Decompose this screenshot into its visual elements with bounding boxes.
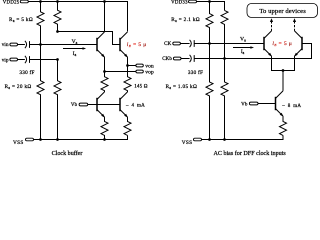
wire tail down	[282, 71, 284, 91]
port Vb (right)	[241, 102, 258, 107]
port Vb	[71, 103, 88, 108]
resistor R12 1.05k	[221, 59, 228, 140]
svg-text:145 Ω: 145 Ω	[134, 84, 148, 89]
power terminal VDD33	[171, 0, 196, 5]
power terminal VSS (right)	[182, 138, 202, 146]
wire VDD25 rail	[28, 2, 127, 32]
svg-text:AC bias for DFF clock inputs: AC bias for DFF clock inputs	[213, 150, 286, 157]
resistor R6 145 Ohm	[124, 66, 131, 93]
node rail-R9	[208, 0, 211, 3]
wire Q2 base route	[58, 32, 121, 45]
node rail-R3	[39, 138, 42, 141]
transistor Q4 current source	[120, 92, 128, 118]
svg-text:VDD25: VDD25	[3, 1, 20, 6]
wire CK to C3	[180, 43, 189, 45]
wire emitters join	[272, 56, 295, 70]
box To upper devices	[247, 4, 318, 18]
svg-text:330 fF: 330 fF	[19, 69, 34, 76]
wire vop	[105, 71, 136, 73]
resistor R8 Q4 emitter	[124, 117, 131, 135]
capacitor C1 330fF	[25, 41, 30, 48]
wire C3 to diff pair	[194, 43, 264, 45]
resistor R7 Q3 emitter	[101, 117, 108, 139]
wire VSS rail (right)	[202, 135, 284, 139]
svg-text:CKb: CKb	[162, 57, 172, 62]
resistor R13 tail emitter	[280, 116, 287, 135]
node Q2 emitter / von	[126, 64, 129, 67]
transistor Q1 emitter follower	[97, 32, 105, 58]
node rail-R1	[39, 0, 42, 3]
svg-text:– 8 mA: – 8 mA	[281, 104, 301, 109]
svg-text:CK: CK	[164, 42, 171, 47]
wire CKb line	[194, 44, 311, 59]
node common emitter	[282, 69, 285, 72]
svg-text:VSS: VSS	[13, 140, 24, 146]
power terminal VDD25	[3, 0, 29, 5]
resistor R5 chain1	[101, 72, 108, 93]
svg-text:Vb: Vb	[71, 103, 78, 108]
resistor R9 2.1k	[206, 2, 213, 44]
wire Q2 emitter down	[127, 57, 129, 65]
capacitor C2 330fF	[25, 56, 30, 63]
wire Q1 emitter down	[104, 57, 106, 71]
node rail-R11	[208, 138, 211, 141]
node vip bias	[56, 58, 59, 61]
svg-text:Vb: Vb	[241, 102, 248, 107]
wire CKb to C4	[181, 58, 190, 60]
wire Vb to base	[258, 103, 276, 105]
node vin bias	[39, 43, 42, 46]
port von	[136, 64, 154, 70]
wire von	[128, 65, 136, 67]
svg-text:VSS: VSS	[182, 140, 193, 146]
current arrow Ia (right)	[233, 46, 254, 49]
svg-text:Clock buffer: Clock buffer	[52, 150, 83, 157]
port vin	[2, 43, 18, 48]
svg-text:– 4 mA: – 4 mA	[125, 103, 145, 108]
svg-text:VDD33: VDD33	[171, 1, 188, 6]
node rail-R2	[56, 0, 59, 3]
svg-text:vip: vip	[2, 58, 9, 63]
wire vip to C2	[18, 59, 25, 61]
node R2 bottom tee	[56, 30, 59, 33]
transistor Q7 diff pair right (mirrored)	[294, 31, 302, 57]
svg-text:vin: vin	[2, 43, 9, 48]
wire C1 to Q1 base	[30, 44, 98, 46]
node rail-R12	[223, 138, 226, 141]
svg-text:vop: vop	[145, 69, 154, 75]
resistor R2 5k	[54, 2, 61, 32]
resistor R11 1.05k	[206, 44, 213, 140]
transistor Q3 current source	[97, 92, 105, 118]
resistor R4 20k	[54, 60, 61, 140]
wire Vb to bases	[88, 104, 120, 106]
node Q1 emitter / vop	[103, 70, 106, 73]
node rail-R7	[103, 138, 106, 141]
transistor Q2 emitter follower	[120, 32, 128, 58]
current arrow Ia	[63, 47, 86, 50]
port vip	[2, 58, 18, 63]
node rail-R4	[56, 138, 59, 141]
node rail-Q1 collector	[103, 0, 106, 3]
svg-text:330 fF: 330 fF	[188, 69, 203, 76]
capacitor C3 330fF	[190, 40, 195, 47]
transistor Q8 tail current source	[276, 91, 284, 117]
wire C2 to node	[30, 59, 58, 61]
transistor Q6 diff pair left	[264, 31, 272, 57]
dashed collector arrow left	[270, 18, 273, 31]
resistor R1 5k	[37, 2, 44, 45]
dashed collector arrow right	[293, 18, 296, 31]
svg-text:Ra = 5 kΩ: Ra = 5 kΩ	[9, 17, 33, 23]
svg-text:To upper devices: To upper devices	[259, 8, 306, 15]
port CKb	[162, 57, 181, 62]
svg-text:von: von	[145, 64, 154, 70]
wire VSS rail	[34, 135, 128, 139]
resistor R3 20k	[37, 45, 44, 140]
resistor R10 2.1k	[221, 10, 228, 58]
power terminal VSS	[13, 138, 34, 146]
capacitor C4 330fF	[190, 55, 195, 62]
wire vin to C1	[18, 44, 25, 46]
wire Q1 collector to rail	[104, 2, 106, 32]
node CK bias	[208, 42, 211, 45]
port CK	[164, 42, 180, 47]
port vop	[136, 69, 154, 75]
wire VDD33 rail	[197, 2, 225, 11]
node CKb bias	[223, 57, 226, 60]
